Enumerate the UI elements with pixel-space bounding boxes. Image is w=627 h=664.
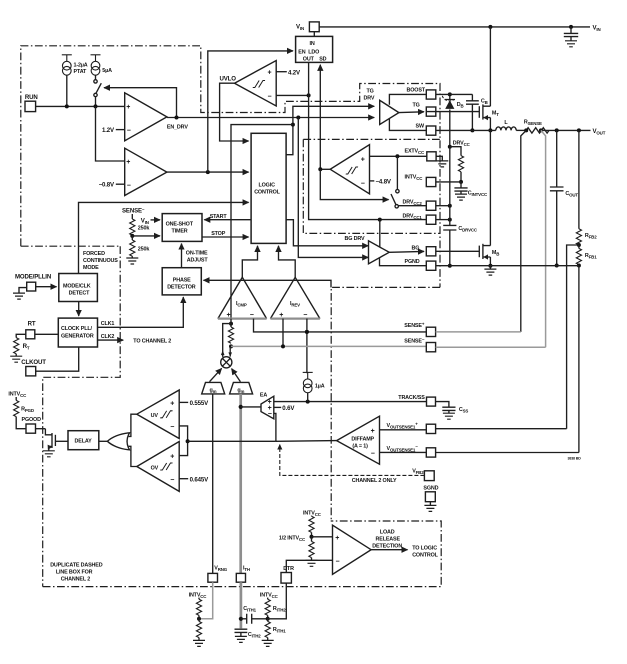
svg-text:ONE-SHOT: ONE-SHOT bbox=[166, 221, 194, 227]
svg-text:INTVCC: INTVCC bbox=[303, 510, 322, 517]
EN comparator output to switch arrow bbox=[104, 88, 177, 118]
svg-text:LOGIC: LOGIC bbox=[259, 182, 276, 188]
svg-text:SENSE−: SENSE− bbox=[404, 337, 425, 345]
svg-text:SGND: SGND bbox=[423, 485, 438, 491]
divider resistor lower bbox=[311, 537, 313, 542]
comparator ICMP bbox=[218, 277, 267, 318]
power ground symbol bbox=[489, 266, 491, 269]
divider resistor upper bbox=[309, 516, 314, 532]
CLK2 wire to channel 2 bbox=[98, 339, 124, 341]
svg-text:SENSE+: SENSE+ bbox=[404, 321, 425, 329]
svg-text:3838 BD: 3838 BD bbox=[568, 457, 582, 461]
wire RFB1 bottom to VOUTSENSE- bbox=[578, 266, 580, 453]
LDO block bbox=[296, 36, 333, 62]
svg-text:EA: EA bbox=[260, 392, 267, 398]
svg-text:−: − bbox=[371, 450, 375, 457]
svg-text:RFB1: RFB1 bbox=[585, 253, 597, 260]
svg-text:PHASE: PHASE bbox=[173, 277, 191, 283]
OV output to OR bbox=[129, 446, 137, 466]
resistor RFB1 bbox=[578, 245, 580, 248]
svg-text:INTVCC: INTVCC bbox=[405, 175, 424, 182]
svg-text:SW: SW bbox=[416, 124, 425, 130]
input capacitor + ground at VIN rail bbox=[570, 27, 572, 33]
svg-text:LDO: LDO bbox=[308, 50, 319, 56]
svg-text:CB: CB bbox=[481, 98, 488, 105]
svg-text:CINTVCC: CINTVCC bbox=[468, 191, 488, 198]
svg-text:INTVCC: INTVCC bbox=[260, 592, 279, 599]
wire comp B branch up to LDO EN bbox=[208, 51, 293, 172]
CLOCK PLL/GENERATOR box bbox=[58, 318, 97, 347]
svg-text:EN: EN bbox=[298, 50, 305, 56]
wire IREV output to LOGIC bbox=[279, 246, 296, 277]
wire FB tap to VOUTSENSE+ bbox=[567, 245, 579, 429]
svg-text:CSS: CSS bbox=[459, 407, 469, 414]
svg-text:VFB2: VFB2 bbox=[412, 469, 424, 476]
svg-text:EN_DRV: EN_DRV bbox=[167, 124, 188, 130]
ITH compensation network bbox=[240, 582, 243, 628]
4.2V stub on UVLO plus bbox=[276, 71, 287, 73]
wire SW bbox=[389, 119, 426, 130]
svg-text:CITH2: CITH2 bbox=[248, 632, 261, 639]
current source 1-2uA PTAT bbox=[62, 55, 72, 75]
wire switch to DRVCC2 pin bbox=[398, 205, 426, 207]
UV output to OR bbox=[129, 414, 137, 436]
0.555V stub bbox=[179, 401, 188, 403]
wire RSENSE to VOUT bbox=[541, 129, 591, 131]
svg-text:RSENSE: RSENSE bbox=[524, 120, 542, 127]
wire MB drain up to SW bbox=[489, 130, 491, 245]
wire EXTVCC comp output up to LDO SD bbox=[319, 65, 321, 170]
comparator B (RUN enable) bbox=[125, 148, 167, 195]
wire MT drain to VIN bbox=[489, 27, 491, 106]
0.6V stub bbox=[274, 406, 281, 408]
wire INTVCC pin to cap bbox=[436, 181, 461, 183]
comparator OV bbox=[137, 442, 179, 492]
sense line A to SENSE+ bbox=[254, 319, 427, 332]
svg-text:RPGD: RPGD bbox=[21, 406, 34, 413]
svg-text:DB: DB bbox=[457, 102, 464, 109]
svg-text:SD: SD bbox=[319, 57, 326, 63]
svg-text:TG: TG bbox=[367, 89, 374, 95]
svg-text:STOP: STOP bbox=[211, 231, 226, 237]
svg-text:DETECTION: DETECTION bbox=[372, 543, 402, 549]
wire EN_DRV trunk bbox=[167, 117, 374, 119]
dashed VFB2 channel-2 wire with up arrow bbox=[280, 445, 425, 476]
svg-text:PTAT: PTAT bbox=[74, 69, 88, 75]
EXTVCC switch bbox=[396, 156, 398, 189]
svg-text:CONTROL: CONTROL bbox=[254, 190, 280, 196]
wire DRVCC1 supply to BG driver bbox=[379, 220, 381, 248]
wire LOGIC to TG driver top input bbox=[286, 106, 374, 154]
wire OR to DELAY bbox=[99, 440, 108, 442]
wire divider to comp plus bbox=[312, 536, 333, 538]
svg-text:OUT: OUT bbox=[303, 57, 315, 63]
wire L to RSENSE bbox=[516, 129, 526, 131]
VFB line bbox=[188, 440, 276, 442]
svg-text:+: + bbox=[268, 70, 272, 77]
gm stage 2 bbox=[230, 382, 253, 394]
wire DRVCC rail down bbox=[449, 147, 451, 266]
svg-text:+: + bbox=[279, 312, 283, 319]
ITH line (thick gray) bbox=[239, 394, 242, 574]
svg-text:VRNG: VRNG bbox=[214, 566, 227, 573]
wire TG driver output to TG pin bbox=[399, 111, 424, 114]
wire BG driver output to BG pin bbox=[389, 250, 424, 253]
svg-text:BG DRV: BG DRV bbox=[345, 236, 366, 242]
svg-text:1.2V: 1.2V bbox=[102, 127, 115, 134]
svg-text:+: + bbox=[170, 400, 174, 407]
svg-text:CONTINUOUS: CONTINUOUS bbox=[83, 258, 118, 264]
svg-text:OV: OV bbox=[151, 465, 159, 471]
IREV minus down / 1uA supply bbox=[306, 319, 308, 374]
svg-text:4.2V: 4.2V bbox=[288, 69, 301, 76]
wire ramp trunk to ICMP plus bbox=[231, 125, 293, 319]
wire DRVCC1 pin to rail bbox=[436, 219, 450, 221]
wire ICMP output to LOGIC bbox=[242, 246, 257, 277]
wire EN trunk branch to BG driver bottom input bbox=[298, 118, 368, 258]
0.645V stub bbox=[179, 478, 188, 480]
resistor DRVCC to INTVCC bbox=[450, 147, 461, 156]
wire EXTVCC comp output to switch blade arrow bbox=[320, 169, 388, 199]
svg-text:DRVCC1: DRVCC1 bbox=[403, 213, 423, 220]
svg-text:UV: UV bbox=[151, 413, 159, 419]
resistor RFB2 bbox=[578, 130, 580, 228]
wire EXTVCC comp output to LDO SD junction bbox=[320, 168, 330, 170]
current source 5uA bbox=[91, 55, 101, 75]
svg-text:−: − bbox=[303, 312, 307, 319]
svg-text:MODE: MODE bbox=[83, 265, 99, 271]
wire mode detect down to clock bbox=[78, 302, 80, 316]
cap COUT bbox=[556, 130, 558, 186]
svg-text:(A = 1): (A = 1) bbox=[352, 444, 368, 450]
svg-text:RITH2: RITH2 bbox=[273, 606, 286, 613]
wire CS1 to RUN rail bbox=[66, 75, 68, 106]
wire SENSE- pin to tap bbox=[436, 346, 546, 348]
DELAY box bbox=[68, 431, 99, 450]
svg-text:BOOST: BOOST bbox=[407, 88, 426, 94]
comp output TO LOGIC CONTROL bbox=[371, 549, 407, 551]
svg-text:DETECTOR: DETECTOR bbox=[167, 285, 196, 291]
svg-text:1/2 INTVCC: 1/2 INTVCC bbox=[279, 536, 306, 543]
SENSE+ tap line bbox=[521, 130, 526, 332]
svg-text:START: START bbox=[210, 214, 228, 220]
EXTVCC pin ground bbox=[436, 156, 442, 160]
wire RUN to comparator B plus bbox=[96, 106, 125, 161]
svg-text:1-2µA: 1-2µA bbox=[74, 63, 88, 69]
svg-text:ADJUST: ADJUST bbox=[187, 258, 209, 264]
UVLO comparator bbox=[235, 61, 277, 107]
PGND rail bbox=[436, 265, 579, 267]
PGOOD pulldown FET bbox=[55, 440, 68, 442]
comparator A (EN_DRV) bbox=[125, 93, 167, 141]
svg-text:CHANNEL 2: CHANNEL 2 bbox=[61, 577, 91, 583]
svg-text:CLKOUT: CLKOUT bbox=[21, 359, 46, 366]
svg-text:CONTROL: CONTROL bbox=[412, 553, 438, 559]
wire BOOST bbox=[389, 94, 426, 104]
svg-text:gm: gm bbox=[210, 387, 217, 394]
MOSFET MT bbox=[426, 111, 479, 113]
svg-text:DTR: DTR bbox=[283, 566, 294, 572]
svg-text:RELEASE: RELEASE bbox=[376, 536, 401, 542]
svg-text:CLK2: CLK2 bbox=[101, 334, 115, 340]
svg-text:−: − bbox=[268, 94, 272, 101]
comparator IREV bbox=[270, 277, 320, 318]
wire VIN pin to LDO IN bbox=[313, 32, 315, 37]
resistor 250k lower bbox=[131, 236, 133, 240]
wire EA minus to VFB node bbox=[274, 413, 276, 441]
wire comparator B output to LOGIC CONTROL bbox=[167, 171, 249, 173]
svg-text:TRACK/SS: TRACK/SS bbox=[398, 395, 425, 401]
svg-text:TG: TG bbox=[413, 102, 420, 108]
svg-text:FORCED: FORCED bbox=[83, 251, 105, 257]
svg-text:0.6V: 0.6V bbox=[282, 405, 295, 412]
svg-text:GENERATOR: GENERATOR bbox=[61, 333, 94, 339]
wire multiplier output to ICMP+ node (up arrow) bbox=[223, 324, 231, 357]
DTR pin to compensation node bbox=[268, 583, 287, 619]
ONE-SHOT TIMER box bbox=[162, 214, 202, 242]
svg-text:−: − bbox=[250, 312, 254, 319]
boost cap CB bbox=[471, 94, 473, 100]
svg-text:RT: RT bbox=[28, 321, 36, 328]
CLK1 wire into phase detector bbox=[98, 297, 184, 327]
svg-text:+: + bbox=[371, 428, 375, 435]
svg-text:LINE BOX FOR: LINE BOX FOR bbox=[56, 570, 93, 576]
sense line B to SENSE- (gray) bbox=[231, 345, 426, 347]
svg-text:CITH1: CITH1 bbox=[243, 606, 256, 613]
svg-text:−: − bbox=[336, 559, 340, 566]
VFB bracket from UV-/OV+ bbox=[179, 426, 187, 456]
svg-text:0.645V: 0.645V bbox=[190, 476, 209, 483]
svg-text:0.555V: 0.555V bbox=[190, 400, 209, 407]
svg-text:+: + bbox=[126, 159, 130, 166]
svg-text:5µA: 5µA bbox=[102, 68, 112, 74]
svg-text:ON-TIME: ON-TIME bbox=[186, 251, 208, 257]
svg-text:UVLO: UVLO bbox=[220, 76, 237, 83]
svg-text:−: − bbox=[268, 411, 272, 418]
svg-text:LOAD: LOAD bbox=[380, 529, 395, 535]
ICMP plus node + ramp resistor bbox=[229, 322, 233, 326]
svg-text:IREV: IREV bbox=[290, 301, 300, 308]
driver TG DRV bbox=[380, 100, 399, 124]
svg-text:−: − bbox=[361, 181, 365, 188]
PHASE DETECTOR box bbox=[162, 268, 201, 295]
svg-text:250k: 250k bbox=[138, 225, 150, 231]
SENSE- tap line (gray) bbox=[541, 130, 546, 347]
svg-text:MB: MB bbox=[492, 250, 499, 257]
svg-text:BG: BG bbox=[412, 246, 420, 252]
MOSFET MB bbox=[436, 250, 480, 252]
svg-text:PGOOD: PGOOD bbox=[22, 417, 42, 423]
svg-text:−0.8V: −0.8V bbox=[99, 181, 115, 188]
gm1 arrow into multiplier bbox=[210, 368, 222, 381]
svg-text:250k: 250k bbox=[138, 246, 150, 252]
wire UVLO minus to LDO OUT sense bbox=[276, 94, 308, 96]
svg-text:DUPLICATE DASHED: DUPLICATE DASHED bbox=[50, 563, 103, 569]
svg-text:+: + bbox=[335, 535, 339, 542]
svg-text:+: + bbox=[361, 157, 365, 164]
svg-text:DETECT: DETECT bbox=[69, 291, 91, 297]
svg-text:+: + bbox=[170, 453, 174, 460]
-4.8V stub bbox=[370, 180, 375, 182]
cap CSS bbox=[436, 402, 449, 407]
svg-text:TO LOGIC: TO LOGIC bbox=[412, 546, 437, 552]
svg-text:DRVCC2: DRVCC2 bbox=[403, 199, 423, 206]
wire LOGIC to BG driver top input bbox=[286, 220, 368, 246]
wire EXTVCC comp plus to pin bbox=[370, 155, 427, 157]
wire RUN rail bbox=[36, 105, 125, 107]
resistor RSENSE bbox=[526, 128, 549, 133]
svg-text:−4.8V: −4.8V bbox=[376, 178, 392, 185]
wire BOOST pin to DB/CB bbox=[436, 93, 473, 95]
svg-text:−: − bbox=[170, 424, 174, 431]
wire VIN rail to right bbox=[319, 26, 590, 28]
svg-text:CLOCK PLL/: CLOCK PLL/ bbox=[61, 326, 92, 332]
gm stage 1 bbox=[202, 382, 225, 394]
svg-text:TO CHANNEL 2: TO CHANNEL 2 bbox=[133, 339, 171, 345]
boost diode DB bbox=[449, 94, 451, 99]
ground under 250k bbox=[126, 258, 138, 264]
svg-text:MT: MT bbox=[492, 111, 499, 118]
resistor RITH1 bbox=[267, 619, 269, 622]
svg-text:INTVCC: INTVCC bbox=[189, 592, 208, 599]
inductor L bbox=[436, 129, 496, 131]
svg-text:COUT: COUT bbox=[565, 191, 578, 198]
wire mode detect up to LOGIC bbox=[79, 202, 249, 273]
wire UVLO output to LOGIC CONTROL bbox=[220, 83, 249, 141]
MODE/CLK DETECT box bbox=[59, 274, 98, 302]
svg-text:PGND: PGND bbox=[405, 259, 420, 265]
comparator UV bbox=[137, 390, 179, 439]
svg-text:CHANNEL 2 ONLY: CHANNEL 2 ONLY bbox=[352, 478, 397, 484]
1uA current source bbox=[303, 372, 313, 392]
DIFFAMP output to VFB node bbox=[276, 440, 337, 443]
cap CITH2 to ground bbox=[235, 629, 248, 632]
VRNG external divider bbox=[199, 582, 213, 619]
svg-text:MODE/PLLIN: MODE/PLLIN bbox=[15, 274, 51, 281]
OR gate (mirrored) bbox=[107, 433, 129, 450]
svg-text:SENSE−: SENSE− bbox=[122, 207, 145, 215]
svg-text:TIMER: TIMER bbox=[172, 229, 188, 235]
wire BG driver to PGND bbox=[380, 258, 427, 266]
svg-text:−: − bbox=[127, 182, 131, 189]
gm2 arrow into multiplier bbox=[232, 369, 241, 382]
svg-text:−: − bbox=[170, 477, 174, 484]
wire MB source to PGND rail bbox=[489, 257, 491, 266]
VRNG line to gm1 bbox=[212, 394, 214, 574]
ON-TIME ADJUST arrow bbox=[181, 244, 183, 268]
svg-text:INTVCC: INTVCC bbox=[8, 392, 27, 399]
svg-text:EXTVCC: EXTVCC bbox=[405, 148, 426, 155]
svg-text:gm: gm bbox=[237, 387, 244, 394]
cap C_INTVCC bbox=[460, 182, 462, 188]
cap CITH1 bbox=[241, 618, 247, 620]
comp minus wire to DTR bbox=[286, 560, 332, 572]
cap C_DRVCC bbox=[443, 225, 456, 230]
multiplier bbox=[221, 357, 232, 368]
svg-text:RUN: RUN bbox=[25, 94, 38, 101]
resistor RT bbox=[14, 338, 19, 354]
svg-text:DRV: DRV bbox=[364, 96, 375, 102]
load release comparator bbox=[333, 525, 372, 574]
channel-2 dashed boundary (outer weave) bbox=[21, 46, 441, 587]
svg-text:RFB2: RFB2 bbox=[585, 233, 597, 240]
svg-text:+: + bbox=[126, 104, 130, 111]
svg-text:ICMP: ICMP bbox=[236, 301, 247, 308]
wire MT source to SW node bbox=[489, 118, 491, 131]
wire ramp input into multiplier (down arrow) bbox=[229, 346, 231, 356]
switch below 5uA bbox=[95, 75, 97, 80]
svg-text:CDRVCC: CDRVCC bbox=[458, 226, 478, 233]
TRACK/SS line bbox=[274, 401, 427, 403]
svg-text:ITH: ITH bbox=[243, 566, 250, 573]
svg-text:MODE/CLK: MODE/CLK bbox=[63, 283, 91, 289]
svg-text:1µA: 1µA bbox=[315, 383, 325, 389]
DB optional dashed arc bbox=[442, 96, 454, 101]
svg-text:+: + bbox=[227, 312, 231, 319]
wire SENSE+ pin to tap bbox=[436, 331, 521, 333]
wire 250k tap to timer bbox=[132, 235, 160, 237]
wire DRVCC2 pin to rail bbox=[436, 205, 450, 207]
svg-text:DIFFAMP: DIFFAMP bbox=[351, 436, 374, 442]
resistor 250k upper bbox=[130, 219, 135, 235]
svg-text:CLK1: CLK1 bbox=[101, 321, 115, 327]
svg-text:IN: IN bbox=[310, 41, 315, 47]
wire EA output to ITH bbox=[241, 406, 262, 408]
wire LDO OUT down to DRVCC1 feed bbox=[309, 62, 427, 219]
phase detector right input wire bbox=[204, 280, 332, 287]
svg-text:RITH1: RITH1 bbox=[273, 627, 286, 634]
svg-text:DELAY: DELAY bbox=[75, 439, 93, 445]
svg-text:−: − bbox=[127, 128, 131, 135]
